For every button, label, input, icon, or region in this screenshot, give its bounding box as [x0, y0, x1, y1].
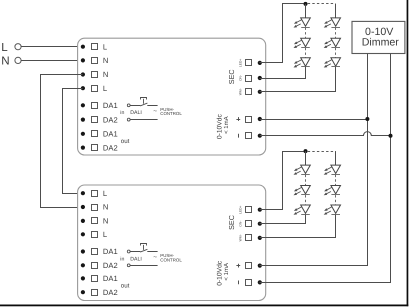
dashed wire in string 2 (block 1)	[335, 28, 337, 39]
dashed wire in string 1 (block 1)	[305, 48, 307, 58]
junction node LED+ rail (block 2)	[304, 149, 308, 153]
LED D10 (block 2 string 2)	[324, 165, 341, 175]
svg-text:N: N	[103, 203, 108, 212]
junction + bus	[365, 117, 369, 121]
U1 terminal DA2 (row 6)	[81, 115, 118, 124]
U2 terminal L (row 1)	[81, 189, 107, 198]
dashed rail extension (block 2)	[308, 151, 336, 153]
U2 terminal - (0-10V)	[239, 280, 262, 286]
LED D7 (block 2 string 1)	[294, 165, 311, 175]
U2 SEC terminal LED+	[239, 205, 262, 213]
wire string2 drop (block 2)	[335, 151, 337, 165]
svg-text:Dimmer: Dimmer	[362, 37, 400, 49]
svg-text:~: ~	[153, 254, 157, 261]
dashed rail extension (block 1)	[308, 3, 336, 5]
U2 terminal DA2 (row 8)	[81, 288, 118, 297]
U2 label 'PUSH-CONTROL'	[160, 253, 182, 262]
svg-text:in: in	[120, 110, 124, 116]
wire U1-N(3) to U2-N	[41, 75, 83, 208]
wire U1 + to dimmer + bus	[260, 119, 368, 121]
drawing frame bottom border	[0, 305, 408, 307]
svg-text:SEC: SEC	[227, 215, 236, 230]
U1 terminal DA1 (row 5)	[81, 101, 118, 110]
0-10V dimmer unit A1	[352, 21, 405, 53]
wire U1-L(4) to U2-L	[63, 89, 83, 194]
U2 DALI push-control switch S2	[127, 244, 157, 267]
svg-text:< 1mA: < 1mA	[223, 263, 230, 281]
U1 label 'PUSH-CONTROL'	[160, 107, 182, 116]
U2 SEC terminal ON-	[239, 221, 262, 227]
svg-text:DALI: DALI	[130, 110, 142, 116]
svg-text:LED+: LED+	[239, 205, 243, 213]
U2 SEC terminal WM-	[239, 234, 262, 241]
svg-text:DA1: DA1	[103, 101, 118, 110]
svg-text:L: L	[103, 42, 107, 51]
svg-text:DA2: DA2	[103, 115, 118, 124]
U1 terminal - (0-10V)	[239, 133, 262, 139]
mains input terminal L	[1, 41, 21, 54]
U2 terminal DA2 (row 6)	[81, 261, 118, 270]
svg-text:LED+: LED+	[239, 59, 243, 67]
wire dimmer - bus to U2 -	[260, 54, 391, 283]
LED D3 (block 1 string 1)	[294, 58, 311, 68]
svg-text:< 1mA: < 1mA	[223, 116, 230, 134]
svg-text:L: L	[1, 41, 8, 54]
svg-text:L: L	[103, 84, 107, 93]
svg-text:N: N	[103, 56, 108, 65]
wire mains N to U1	[21, 60, 83, 62]
junction node LED+ rail (block 1)	[304, 2, 308, 6]
U1 terminal N (row 3)	[81, 70, 109, 79]
LED string 1 return wire to ON- (block 1)	[260, 67, 306, 79]
svg-text:out: out	[121, 138, 130, 145]
U1 SEC terminal WM-	[239, 88, 262, 95]
LED string 2 return wire to WM- (block 1)	[260, 67, 336, 92]
svg-text:DA2: DA2	[103, 288, 118, 297]
svg-text:DA1: DA1	[103, 274, 118, 283]
svg-text:ON-: ON-	[239, 221, 243, 227]
LED D5 (block 1 string 2)	[324, 38, 341, 48]
wire string1 drop (block 2)	[305, 151, 307, 165]
svg-text:WM-: WM-	[239, 234, 243, 241]
svg-text:DA2: DA2	[103, 261, 118, 270]
svg-text:~: ~	[153, 108, 157, 115]
U2 label 'in DALI'	[120, 256, 142, 262]
LED string 1 return wire to ON- (block 2)	[260, 215, 306, 224]
svg-text:0-10Vdc: 0-10Vdc	[217, 114, 224, 140]
wire mains L to U1	[21, 46, 83, 48]
U1 terminal L (row 1)	[81, 42, 107, 51]
LED string supply wire LED+ (block 2)	[260, 152, 304, 210]
dashed wire in string 2 (block 2)	[335, 175, 337, 186]
dashed wire in string 1 (block 2)	[305, 195, 307, 205]
svg-text:N: N	[103, 70, 108, 79]
U1 DALI push-control switch S1	[127, 98, 157, 122]
LED D6 (block 1 string 2)	[324, 58, 341, 68]
dashed wire in string 1 (block 1)	[305, 28, 307, 39]
U1 label 'in DALI'	[120, 110, 142, 116]
U1 terminal N (row 2)	[81, 56, 109, 65]
svg-text:N: N	[103, 217, 108, 226]
svg-text:DALI: DALI	[130, 256, 142, 262]
U1 terminal L (row 4)	[81, 84, 107, 93]
dashed wire in string 2 (block 1)	[335, 48, 337, 58]
U2 terminal N (row 2)	[81, 203, 109, 212]
svg-text:N: N	[1, 55, 9, 68]
dashed wire in string 2 (block 2)	[335, 195, 337, 205]
svg-text:CONTROL: CONTROL	[160, 257, 182, 262]
U2 terminal DA1 (row 5)	[81, 247, 118, 256]
LED D1 (block 1 string 1)	[294, 18, 311, 28]
svg-text:SEC: SEC	[227, 69, 236, 84]
svg-text:in: in	[120, 256, 124, 262]
svg-text:0-10Vdc: 0-10Vdc	[217, 260, 224, 286]
LED D4 (block 1 string 2)	[324, 18, 341, 28]
U1 label '0-10Vdc < 1mA'	[217, 114, 230, 140]
svg-text:DA1: DA1	[103, 130, 118, 139]
wire string2 drop (block 1)	[335, 4, 337, 18]
U2 terminal + (0-10V)	[236, 263, 262, 269]
drawing frame right border	[407, 0, 409, 306]
U2 terminal N (row 3)	[81, 217, 109, 226]
svg-text:out: out	[121, 283, 130, 290]
svg-text:L: L	[103, 230, 107, 239]
svg-text:DA1: DA1	[103, 247, 118, 256]
LED string supply wire LED+ (block 1)	[260, 4, 304, 63]
wire string1 drop (block 1)	[305, 4, 307, 18]
U1 terminal + (0-10V)	[236, 117, 262, 123]
U1 SEC terminal LED+	[239, 59, 262, 67]
U2 terminal DA1 (row 7)	[81, 274, 118, 283]
svg-text:CONTROL: CONTROL	[160, 111, 182, 116]
dashed wire in string 1 (block 2)	[305, 175, 307, 186]
LED driver module U1 body	[78, 38, 266, 155]
LED D12 (block 2 string 2)	[324, 205, 341, 215]
LED string 2 return wire to WM- (block 2)	[260, 215, 336, 238]
U2 label '0-10Vdc < 1mA'	[217, 260, 230, 286]
wire dimmer + bus to U2 +	[260, 54, 368, 266]
svg-text:L: L	[103, 189, 107, 198]
LED D8 (block 2 string 1)	[294, 186, 311, 196]
svg-text:DA2: DA2	[103, 143, 118, 152]
wire U1 - to dimmer - bus (with hop over + bus)	[260, 132, 391, 136]
U1 terminal DA2 (row 8)	[81, 143, 118, 152]
junction - bus	[389, 134, 393, 138]
svg-text:WM-: WM-	[239, 88, 243, 95]
LED driver module U2 body	[78, 185, 266, 301]
LED D9 (block 2 string 1)	[294, 205, 311, 215]
svg-text:ON-: ON-	[239, 75, 243, 81]
LED D2 (block 1 string 1)	[294, 38, 311, 48]
mains input terminal N	[1, 55, 21, 68]
U1 terminal DA1 (row 7)	[81, 130, 118, 139]
LED D11 (block 2 string 2)	[324, 186, 341, 196]
U1 SEC terminal ON-	[239, 75, 262, 82]
U2 terminal L (row 4)	[81, 230, 107, 239]
